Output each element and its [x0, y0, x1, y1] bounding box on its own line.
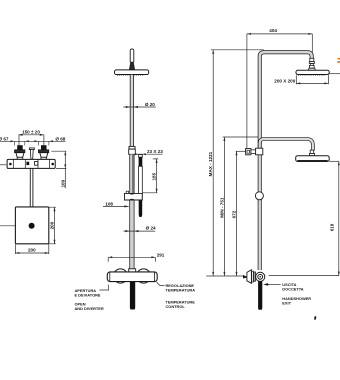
svg-text:Ø 67: Ø 67 — [0, 136, 9, 141]
MAX extension line — [211, 49, 264, 51]
ext wall line — [246, 34, 248, 148]
svg-text:23 X 23: 23 X 23 — [147, 149, 163, 154]
dim 100 — [51, 151, 66, 188]
right reference line at mixer centre — [269, 275, 339, 277]
svg-text:EXIT: EXIT — [282, 300, 291, 305]
knob diameter arrows — [11, 140, 53, 142]
MAX dim line — [212, 50, 214, 276]
svg-text:DOCCETTA: DOCCETTA — [282, 287, 304, 292]
wall bracket — [246, 149, 251, 155]
spray dotted — [298, 74, 325, 76]
svg-text:Ø 24: Ø 24 — [146, 226, 156, 231]
svg-text:AND DIVERTER: AND DIVERTER — [75, 306, 104, 311]
618 top extension — [329, 160, 339, 162]
672 extension — [236, 150, 246, 152]
leader USCITA — [267, 283, 281, 285]
riser junction block — [256, 148, 263, 155]
mixer center connector — [129, 269, 136, 272]
ext from head to right edge — [329, 73, 340, 75]
head plate 200x200 (top view) — [15, 207, 48, 244]
svg-text:291: 291 — [157, 252, 165, 257]
pipe down to plate — [30, 168, 33, 224]
mixer side view: knob — [247, 270, 252, 284]
lower head connector — [310, 150, 315, 156]
extension ticks knobs — [15, 141, 49, 145]
mixer ribs — [252, 271, 254, 282]
top stub pipe — [130, 49, 134, 62]
dim 185 — [142, 159, 158, 193]
lower arm (MIN position) — [260, 139, 313, 151]
leader line to left edge — [0, 225, 29, 227]
svg-text:108: 108 — [105, 202, 113, 207]
svg-text:CONTROL: CONTROL — [166, 304, 186, 309]
mixer end circle — [256, 272, 265, 281]
dim 404 — [247, 28, 312, 148]
618 dim line — [338, 161, 340, 275]
bracket link — [251, 150, 256, 154]
svg-text:TEMPERATURA: TEMPERATURA — [166, 288, 196, 293]
672 dim line — [236, 151, 238, 276]
ext head centre — [311, 34, 313, 58]
upper head (side) — [296, 70, 329, 74]
svg-text:404: 404 — [269, 28, 277, 33]
leader REGOLAZIONE — [157, 282, 165, 286]
dim 291 — [108, 252, 165, 262]
MIN extension line — [223, 136, 258, 138]
handshower handle — [139, 155, 143, 217]
spray holes dotted — [117, 74, 144, 76]
dim 150±20 line — [18, 135, 44, 145]
svg-text:MIN - 751: MIN - 751 — [219, 197, 224, 218]
svg-text:150 ± 20: 150 ± 20 — [22, 129, 40, 134]
mixer front: knob circles — [113, 269, 127, 283]
mixer body bar — [107, 272, 157, 282]
dim 150±20 arrows — [18, 134, 44, 136]
rail tube — [130, 154, 134, 268]
black speck bottom right — [314, 316, 316, 320]
MIN dim line — [223, 137, 225, 276]
svg-text:100: 100 — [60, 179, 65, 187]
dim 200x200 — [274, 75, 328, 84]
svg-text:E DEVIATORE: E DEVIATORE — [75, 293, 101, 298]
right knob K2 — [38, 145, 48, 159]
dim Ø20 — [123, 102, 156, 108]
orange edge mark — [337, 59, 340, 62]
ball joint on riser — [255, 192, 263, 200]
leader APERTURA — [99, 285, 108, 290]
head (front) — [115, 70, 149, 75]
upper head connector — [308, 58, 315, 70]
left knob K1 — [15, 145, 25, 159]
svg-text:MAX - 1221: MAX - 1221 — [208, 151, 213, 176]
dim 23x23 — [135, 149, 163, 155]
upper pipe Ø20 — [130, 75, 133, 147]
mixer bar (top view) — [7, 159, 55, 168]
svg-text:672: 672 — [232, 210, 237, 218]
center stem — [29, 148, 34, 159]
dim Ø24 — [123, 226, 156, 233]
hose below (side) — [258, 282, 262, 310]
ball joint dot — [29, 223, 35, 229]
dim 200 vertical — [49, 207, 56, 244]
cone connector — [129, 62, 135, 70]
slider holder — [125, 191, 143, 200]
svg-text:200: 200 — [49, 221, 54, 229]
cut extension to left edge — [0, 164, 6, 166]
svg-text:Ø 20: Ø 20 — [145, 102, 155, 107]
lower head (side) — [296, 156, 330, 162]
svg-text:185: 185 — [152, 172, 157, 180]
hose below mixer — [130, 282, 135, 310]
junction collar — [129, 146, 135, 149]
dim 108 — [103, 202, 129, 208]
baseline with arrow to mixer — [206, 275, 244, 277]
riser + upper arm pipe — [260, 52, 312, 270]
svg-text:618: 618 — [329, 223, 334, 231]
dim 200 horizontal — [15, 244, 48, 254]
svg-text:200: 200 — [28, 248, 36, 253]
svg-text:Ø 68: Ø 68 — [55, 136, 65, 141]
dim Ø67/Ø68 line — [0, 140, 66, 142]
svg-text:200 X 200: 200 X 200 — [274, 78, 295, 83]
